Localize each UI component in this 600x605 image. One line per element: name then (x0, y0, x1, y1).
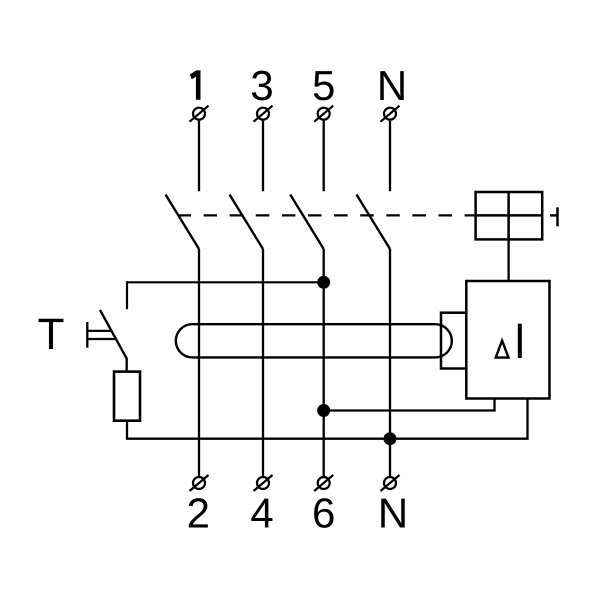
terminal 4 circle (254, 475, 273, 491)
terminal 1 circle (190, 106, 209, 122)
switch contact pole 1 (166, 195, 200, 250)
wire pole3 top stub (262, 121, 264, 191)
label 5 (314, 71, 334, 100)
node junction pole5 bottom (317, 404, 330, 417)
label 1 (190, 70, 201, 99)
label N top (380, 71, 403, 100)
label T (39, 319, 64, 349)
terminal 5 circle (314, 106, 333, 122)
switch contact pole 5 (290, 195, 324, 250)
label 3 (252, 71, 272, 101)
wire test line top (127, 281, 324, 283)
wire pole1 lower conductor (198, 249, 200, 477)
switch contact pole 3 (230, 195, 264, 250)
current transformer toroid (176, 324, 452, 357)
trip lever tick (550, 207, 558, 226)
wire poleN top stub (389, 121, 391, 191)
wire mechanism to relay (507, 239, 509, 281)
label 2 (189, 498, 208, 527)
wire test left drop (126, 281, 128, 309)
wire resistor to bottom bus (127, 399, 528, 439)
terminal N bottom circle (381, 475, 400, 491)
label 6 (314, 498, 333, 528)
terminal N top circle (381, 106, 400, 122)
label 4 (251, 499, 272, 528)
relay box U1 (466, 281, 549, 399)
sensing coupling box (441, 313, 466, 369)
label N bottom (381, 499, 404, 528)
delta I symbol (496, 324, 522, 358)
terminal 6 circle (314, 475, 333, 491)
resistor R test (114, 372, 140, 421)
wire test blade to resistor (126, 358, 128, 373)
terminal 2 circle (190, 475, 209, 491)
wire relay sense to pole5 (324, 399, 495, 411)
wire pole5 top stub (323, 121, 325, 191)
wire pole5 lower conductor (323, 249, 325, 477)
test button actuator (87, 322, 115, 348)
mechanism box (476, 192, 543, 239)
node junction pole5 top (317, 276, 330, 289)
test switch contact (100, 310, 127, 359)
wire pole1 top stub (198, 121, 200, 191)
mechanical linkage dashed line (178, 214, 476, 216)
node junction N bottom (384, 432, 397, 445)
wire poleN lower conductor (389, 249, 391, 477)
wire pole3 lower conductor (262, 249, 264, 477)
switch contact pole N (357, 195, 391, 250)
terminal 3 circle (254, 106, 273, 122)
